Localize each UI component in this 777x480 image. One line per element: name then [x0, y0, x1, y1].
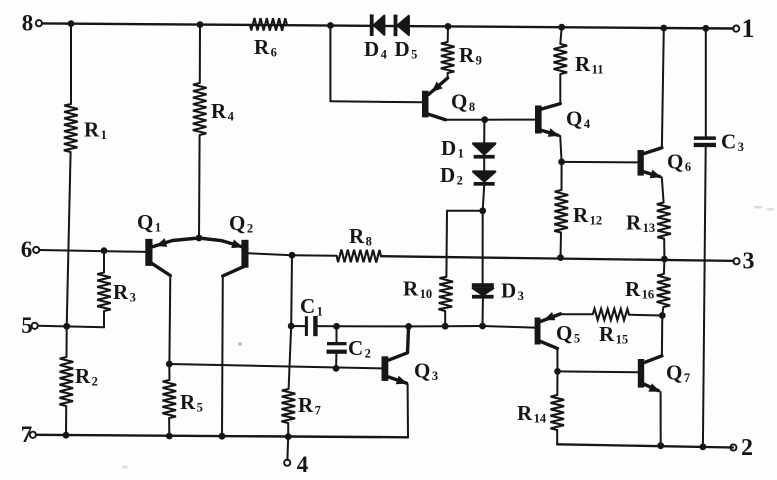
transistor Q2	[241, 240, 248, 268]
resistor R14	[550, 395, 564, 430]
terminal 4	[284, 460, 290, 466]
node Q5 collector / Q7 base / R14	[554, 368, 561, 375]
wire R1 upper lead	[70, 24, 72, 104]
wire R15 right lead	[629, 314, 662, 317]
wire C2 top lead	[336, 326, 338, 342]
wire D3 node to Q5 base	[483, 326, 535, 328]
wire R10 lower lead	[444, 311, 446, 326]
wire R14 upper lead	[556, 371, 558, 395]
capacitor C2	[327, 342, 347, 345]
terminal 3	[733, 258, 739, 264]
wire to R10 bottom	[409, 325, 446, 327]
wire pin4 stub	[286, 437, 289, 460]
wire Q8 collector to D1 node	[446, 119, 485, 121]
resistor R2	[59, 357, 73, 406]
wire R2 lower lead	[65, 406, 67, 435]
resistor R11	[554, 44, 568, 74]
node top rail / Q8 base branch	[327, 22, 334, 29]
transistor Q6	[638, 150, 644, 176]
wire D3 anode lead	[482, 211, 484, 284]
transistor Q4	[535, 106, 542, 134]
wire Q2 collector line	[221, 276, 224, 436]
wire R16 upper lead	[663, 259, 666, 274]
node top rail / Q6 collector	[660, 25, 667, 32]
svg-text:7: 7	[21, 422, 33, 447]
node top rail / R4	[197, 21, 204, 28]
transistor Q7	[638, 359, 644, 388]
terminal 6	[33, 247, 39, 253]
capacitor C3	[694, 136, 716, 140]
wire R4 lower lead	[198, 135, 201, 238]
transistor Q5	[535, 318, 541, 345]
resistor R4	[193, 83, 207, 135]
resistor R16	[657, 274, 671, 307]
wire R5 lower lead	[168, 418, 170, 436]
node pin6 wire / R3	[101, 247, 108, 254]
node top rail / R11	[558, 24, 565, 31]
wire R12 upper lead	[561, 162, 563, 190]
terminal 7	[30, 432, 36, 438]
wire R11 upper lead	[560, 27, 561, 44]
node D3 bottom	[479, 323, 486, 330]
svg-text:4: 4	[297, 452, 309, 477]
wire R16 lower lead	[662, 307, 663, 316]
transistor Q1	[145, 239, 152, 266]
node Q1/Q2 common emitters	[196, 235, 203, 242]
node mid rail / R12	[557, 254, 564, 261]
resistor R3	[97, 273, 111, 312]
node top rail / R9	[445, 23, 452, 30]
wire R4 upper lead	[199, 25, 201, 83]
wire R15 to Q5 emitter	[561, 313, 593, 315]
resistor R13	[657, 203, 671, 239]
wire Q4 base wire	[485, 119, 535, 121]
node pin7 rail / R7 / pin4	[285, 433, 292, 440]
wire Q7 collector up	[661, 316, 663, 356]
wire R3 lower lead	[103, 311, 105, 327]
wire jog to R10 top	[447, 210, 483, 212]
node pin2 rail / Q7 emitter	[657, 442, 664, 449]
wire C2 bottom lead	[335, 354, 337, 369]
node C1 left plate	[288, 323, 295, 330]
wire Q6 collector to top rail	[662, 28, 664, 148]
svg-text:6: 6	[21, 237, 33, 262]
wire R1 lower lead	[67, 152, 71, 326]
node C2 / Q3 base wire	[333, 365, 340, 372]
capacitor C1	[305, 316, 308, 336]
wire top rail down to Q8 base	[329, 26, 331, 102]
transistor Q8	[422, 91, 429, 118]
terminal 2	[730, 444, 736, 450]
wire to Q8 base	[330, 101, 422, 102]
wire R10 bottom to D3 bottom	[445, 325, 482, 327]
wire R14 lower lead	[556, 430, 558, 444]
wire Q5 collector down	[556, 348, 558, 371]
node pin2 rail / C3	[700, 443, 707, 450]
svg-text:3: 3	[743, 249, 755, 275]
resistor R15	[593, 309, 629, 321]
wire R8 left lead	[292, 254, 337, 257]
terminal 1	[733, 26, 739, 32]
node D2 / R10 / D3	[479, 207, 486, 214]
wire pin2 rail	[557, 444, 733, 447]
node top rail / C3	[702, 25, 709, 32]
wire R8 to pin3	[381, 256, 734, 261]
wire Q6 base wire	[562, 161, 638, 164]
terminal 5	[32, 323, 38, 329]
wire Q8 emitter to R9	[447, 73, 449, 78]
svg-text:8: 8	[22, 11, 34, 36]
wire D1-D2 link	[483, 158, 485, 172]
wire pin5 to R3 bottom	[38, 326, 104, 328]
wire R5 upper lead	[168, 364, 170, 380]
wire pin7 rail	[36, 435, 408, 438]
node R1/R2/pin5 wire	[63, 323, 70, 330]
wire R7 upper lead	[289, 326, 292, 389]
wire R2 upper lead	[66, 326, 68, 357]
wire D3 cathode lead	[482, 299, 484, 326]
resistor R9	[441, 42, 455, 73]
node Q4 emitter / Q6 base / R12	[558, 159, 565, 166]
node pin7 rail / Q2 collector	[219, 433, 226, 440]
node R10 bottom	[442, 323, 449, 330]
diode D2	[473, 172, 495, 182]
wire C1 node to Q3 collector node	[337, 325, 409, 327]
resistor R10	[439, 277, 454, 311]
node pin7 rail / R5	[166, 433, 173, 440]
wire C3 lower lead	[703, 147, 706, 447]
transistor Q3	[382, 356, 389, 381]
wire Q7 emitter down	[660, 392, 662, 446]
resistor R12	[554, 190, 568, 233]
node R16 / R15 / Q7 collector	[659, 312, 666, 319]
wire C3 upper lead	[705, 28, 707, 136]
wire pin7 rail to Q3 emitter	[407, 384, 409, 437]
diode D5	[394, 15, 398, 37]
diode D4	[370, 14, 374, 36]
resistor R5	[162, 380, 176, 418]
svg-text:2: 2	[741, 435, 753, 461]
wire D1 anode lead	[483, 120, 485, 145]
node Q3 collector / C1 wire	[405, 323, 412, 330]
wire top rail (pin8 to pin1)	[42, 23, 733, 28]
wire Q4 emitter down	[560, 136, 561, 162]
wire R12 lower lead	[560, 233, 563, 258]
node Q1 collector / Q3 base wire / R5	[166, 361, 173, 368]
wire Q4 collector to R11	[559, 74, 561, 104]
node C1 / C2 top	[333, 323, 340, 330]
wire R13 lower lead	[663, 239, 665, 259]
wire Q7 base wire	[558, 370, 638, 373]
wire R9 upper lead	[447, 26, 449, 42]
node pin7 rail / R2	[63, 432, 70, 439]
resistor R6	[250, 18, 287, 31]
node Q2 base / R8 / C1 branch	[289, 252, 296, 259]
wire C1 right lead	[318, 325, 337, 327]
wire C1 left lead	[291, 325, 305, 327]
svg-text:5: 5	[21, 313, 33, 338]
wire Q3 base wire	[169, 364, 381, 368]
diode D3	[472, 283, 494, 287]
wire D2 cathode lead	[483, 185, 485, 210]
terminal 8	[36, 20, 42, 26]
wire Q6 emitter to R13	[662, 177, 664, 202]
wire Q2 base to R8 node	[249, 253, 293, 255]
wire pin6 to Q1 base	[39, 250, 145, 252]
node Q8 collector / Q4 base / D1	[481, 116, 488, 123]
node mid rail / R13 / R16	[661, 256, 668, 263]
wire Q2 base node down to C1	[290, 255, 293, 326]
wire R7 lower lead	[287, 423, 289, 437]
resistor R8	[337, 250, 381, 263]
resistor R1	[64, 104, 78, 152]
wire R3 upper lead	[103, 251, 105, 273]
resistor R7	[281, 389, 295, 423]
node top rail / R1	[68, 20, 75, 27]
wire Q1 collector line	[168, 276, 171, 365]
diode D1	[473, 144, 495, 155]
svg-text:1: 1	[742, 14, 755, 43]
